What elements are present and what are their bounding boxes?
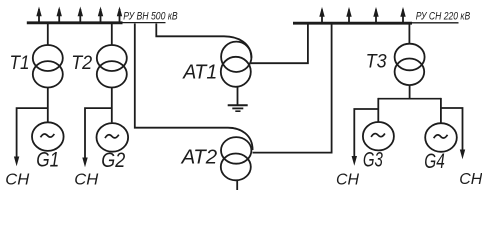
G1 sine symbol (41, 134, 55, 137)
bus РУ ВН 500 кВ (27, 21, 123, 24)
wire T3 to split node (409, 86, 411, 99)
wire 500kV bus to AT1 (156, 24, 251, 59)
svg-text:АТ2: АТ2 (181, 146, 218, 168)
feeder arrow R3 (373, 7, 378, 23)
generator G1 (32, 122, 64, 151)
feeder arrow R1 (319, 7, 324, 23)
AT1 neutral stem (237, 87, 239, 105)
feeder arrow R2 (346, 7, 351, 23)
G4 sine symbol (434, 135, 448, 138)
svg-text:Т3: Т3 (366, 51, 387, 72)
wire bus to T1 (47, 24, 49, 45)
svg-text:Т2: Т2 (71, 53, 92, 74)
svg-text:G4: G4 (424, 150, 445, 173)
node split bar (378, 98, 441, 100)
wire G1 aux branch (17, 108, 48, 157)
arrow СН of G4 (460, 150, 465, 160)
feeder arrow L2 (57, 7, 62, 23)
arrow СН of G3 (352, 156, 357, 166)
svg-text:Т1: Т1 (10, 53, 30, 74)
wire AT2 to 220kV bus (253, 24, 332, 153)
svg-text:РУ ВН 500 кВ: РУ ВН 500 кВ (123, 11, 178, 23)
svg-text:G1: G1 (36, 149, 59, 172)
transformer T3 (395, 44, 425, 85)
transformer T2 (97, 45, 127, 88)
G2 sine symbol (105, 135, 119, 138)
svg-text:СН: СН (5, 172, 29, 189)
wire node to G4 (440, 98, 442, 123)
feeder arrow L5 (117, 7, 122, 23)
G3 sine symbol (371, 134, 385, 137)
wire G3 aux branch (354, 109, 378, 157)
transformer T1 (33, 45, 63, 88)
ground AT1 (228, 105, 248, 111)
generator G3 (363, 122, 394, 150)
autotransformer AT1 (221, 42, 252, 87)
svg-text:G3: G3 (363, 148, 383, 171)
wire bus to T3 (408, 24, 410, 44)
bus РУ СН 220 кВ (293, 22, 412, 25)
wire T2 to G2 (111, 88, 113, 123)
arrow СН of G2 (82, 158, 87, 168)
wire 500kV bus to AT2 (135, 24, 253, 151)
wire G4 aux branch (441, 108, 463, 150)
svg-text:РУ СН 220 кВ: РУ СН 220 кВ (416, 11, 471, 23)
wire T1 to G1 (47, 88, 49, 122)
AT2 neutral stem (236, 180, 238, 190)
wire bus to T2 (111, 24, 113, 45)
wire G2 aux branch (85, 108, 112, 158)
wire node to G3 (377, 98, 379, 122)
generator G4 (425, 123, 457, 152)
feeder arrow L4 (98, 7, 103, 23)
svg-text:СН: СН (459, 171, 482, 188)
svg-text:АТ1: АТ1 (182, 62, 217, 84)
generator G2 (97, 123, 129, 152)
svg-text:СН: СН (74, 171, 98, 188)
autotransformer AT2 (221, 137, 252, 180)
feeder arrow R4 (400, 7, 405, 23)
svg-text:СН: СН (336, 172, 359, 189)
wire AT1 to 220kV bus (251, 24, 308, 63)
feeder arrow L1 (36, 7, 41, 23)
svg-text:G2: G2 (101, 149, 125, 172)
arrow СН of G1 (14, 157, 19, 167)
feeder arrow L3 (78, 7, 83, 23)
